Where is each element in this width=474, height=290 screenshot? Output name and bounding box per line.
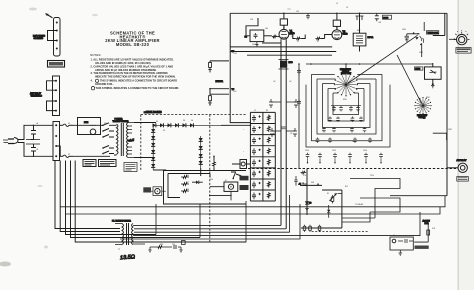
svg-text:-105: -105	[233, 91, 236, 93]
filament bus right	[285, 39, 287, 229]
relay contact arrow b	[330, 194, 336, 201]
svg-text:L2: L2	[336, 3, 338, 5]
wire grid V2	[321, 38, 329, 40]
svg-text:C302: C302	[419, 52, 423, 54]
svg-text:330: 330	[322, 130, 325, 132]
svg-text:J4: J4	[393, 235, 395, 237]
svg-text:ABOVE ARE IN pF UNLESS MARKED: ABOVE ARE IN pF UNLESS MARKED OTHERWISE.	[95, 68, 157, 72]
svg-text:.02: .02	[273, 81, 275, 83]
meter shunt resistors	[181, 176, 189, 179]
dashed cable run	[312, 231, 368, 233]
svg-text:TUNE C301: TUNE C301	[427, 32, 439, 34]
dashed chassis separator	[248, 168, 456, 170]
wire long bundle row 6	[134, 212, 420, 236]
svg-text:ZENER: ZENER	[216, 81, 224, 83]
svg-text:RFC: RFC	[289, 62, 294, 64]
svg-text:SW2 (S): SW2 (S)	[419, 117, 426, 119]
junction dots tank bottom	[307, 162, 382, 163]
svg-text:R47: R47	[186, 182, 189, 184]
resistor row bottom r3	[318, 225, 321, 232]
meter M2 multimeter	[153, 187, 162, 196]
svg-text:SOCKETS: SOCKETS	[34, 38, 44, 40]
grid resistor V1	[272, 35, 278, 37]
svg-text:572B: 572B	[343, 33, 349, 35]
svg-text:4.: 4.	[91, 79, 93, 83]
svg-text:NOTES:: NOTES:	[90, 53, 101, 57]
svg-text:D4: D4	[191, 120, 193, 122]
svg-text:R46: R46	[186, 175, 189, 177]
wafer SW2 starburst	[416, 99, 430, 113]
wire relay to right	[301, 190, 342, 228]
label alc hatched	[415, 246, 429, 249]
svg-text:.02: .02	[289, 81, 291, 83]
ALC wire	[414, 225, 428, 243]
svg-text:SW1: SW1	[343, 99, 347, 101]
wire RF left edge	[230, 13, 250, 122]
ground input	[255, 42, 258, 47]
wire long bundle row 2	[66, 207, 441, 214]
wire long bundle row 5	[134, 195, 290, 232]
arrow to J1	[46, 14, 53, 18]
transformer T1 secondary	[127, 123, 129, 158]
svg-text:.02: .02	[299, 184, 302, 186]
svg-text:13.5Ω: 13.5Ω	[120, 254, 135, 261]
nested loop wire 1	[306, 85, 390, 147]
cap filament right	[293, 128, 297, 137]
wire AC neutral	[18, 143, 53, 157]
svg-text:□ RECT. BOARD: □ RECT. BOARD	[144, 111, 162, 114]
svg-text:R33: R33	[160, 244, 163, 246]
wire plate to tubes	[284, 25, 337, 30]
diode string vertical right	[200, 136, 202, 168]
resistor relay vert	[331, 195, 334, 203]
svg-text:TRANSFORMER: TRANSFORMER	[113, 120, 130, 123]
svg-text:SW2: SW2	[426, 97, 430, 99]
svg-text:K1: K1	[327, 193, 329, 195]
wire input left	[246, 19, 258, 36]
rectifier board dashed box	[141, 115, 246, 244]
label meter dark	[143, 187, 151, 192]
diode metering	[196, 181, 199, 185]
plate choke RFC1	[353, 33, 366, 46]
wire lamp	[214, 156, 251, 170]
resistor R bias lower	[210, 94, 229, 96]
svg-text:TO RELAY: TO RELAY	[355, 203, 364, 206]
capacitor C1 line bypass	[31, 125, 37, 139]
load capacitor C306 box	[425, 67, 442, 79]
tune capacitor C301	[407, 34, 420, 37]
filament transformer T2	[122, 224, 124, 245]
svg-text:SW: SW	[104, 123, 107, 125]
transformer T1 core	[121, 123, 123, 156]
svg-text:THIS SYMBOL INDICATES A CONNEC: THIS SYMBOL INDICATES A CONNECTION TO CI…	[100, 79, 177, 83]
svg-text:R48: R48	[186, 189, 189, 191]
switch SW ac contacts	[103, 123, 114, 154]
meter M1	[224, 182, 238, 191]
ground load cap	[432, 83, 434, 85]
cathode resistor V1-V2 a	[295, 37, 301, 39]
svg-text:MODEL S: MODEL S	[342, 71, 349, 73]
svg-text:ANT RELAY: ANT RELAY	[30, 92, 42, 95]
diode relay D1	[327, 210, 330, 213]
wire long bundle row 7	[120, 204, 300, 239]
label grid (dark)	[240, 176, 249, 181]
wire bus down from AC area	[56, 146, 60, 156]
wire three bus lines tubes	[230, 43, 336, 55]
svg-text:+: +	[243, 151, 244, 153]
filament choke hatch	[280, 61, 287, 68]
svg-text:2. CAPACITOR VALUES LESS THAN: 2. CAPACITOR VALUES LESS THAN 1 ARE IN µ…	[91, 64, 174, 68]
svg-text:RCA PHONO: RCA PHONO	[33, 35, 45, 38]
svg-text:10: 10	[291, 36, 293, 38]
diagonal linkage to SW1	[348, 35, 418, 83]
wire fil caps	[271, 102, 296, 131]
svg-text:F1: F1	[68, 123, 70, 125]
svg-text:C314: C314	[363, 150, 367, 152]
svg-text:+105: +105	[233, 53, 237, 55]
capacitor C300	[375, 13, 379, 21]
cap filament left	[270, 128, 274, 137]
svg-text:D16: D16	[210, 179, 213, 181]
label ant box	[457, 177, 469, 182]
diagonal linkage to SW2	[397, 55, 422, 104]
capacitor bank grid	[250, 112, 275, 201]
ground alc	[399, 250, 403, 256]
parasitic suppressor V1	[280, 19, 287, 25]
cap pair small left	[269, 99, 273, 108]
electrolytic capacitors C1-C8 column	[252, 115, 261, 199]
wire long bundle row 8	[120, 201, 246, 242]
antenna connector J3	[458, 163, 467, 172]
svg-text:FAN: FAN	[84, 121, 89, 124]
diode string vertical left	[152, 126, 154, 170]
wire step route a	[342, 179, 400, 219]
svg-text:500: 500	[350, 130, 353, 132]
svg-text:D3: D3	[183, 120, 185, 122]
wire step route b	[342, 198, 400, 222]
junction dots top bus	[283, 13, 285, 15]
label line voltage box	[99, 160, 117, 167]
meter wires	[210, 186, 224, 188]
svg-text:THIS SYMBOL INDICATES A CONNEC: THIS SYMBOL INDICATES A CONNECTION TO TH…	[96, 86, 180, 90]
tank capacitor row A	[331, 105, 361, 111]
svg-text:L3: L3	[346, 7, 348, 9]
wire relay circuit frame	[300, 169, 322, 216]
svg-text:C19: C19	[296, 11, 299, 13]
tube V1 572B	[279, 29, 289, 39]
label plate (dark)	[240, 185, 249, 190]
wire top right corner	[433, 13, 447, 195]
svg-text:D1: D1	[156, 121, 158, 123]
svg-text:RL1: RL1	[345, 186, 348, 188]
circuit breaker CB1	[90, 124, 96, 126]
svg-text:R1: R1	[266, 110, 268, 112]
wire ant to relay	[447, 167, 458, 169]
svg-text:750: 750	[315, 141, 318, 143]
wire long bundle row 3	[134, 224, 281, 226]
svg-text:C20: C20	[250, 19, 253, 21]
svg-text:3. THE BANDSWITCH IS IN THE 8: 3. THE BANDSWITCH IS IN THE 80 METER POS…	[91, 71, 168, 75]
lamp box	[240, 160, 247, 169]
ground bottom a	[148, 247, 151, 252]
junction dots ps	[250, 125, 252, 127]
svg-text:.001: .001	[378, 22, 381, 24]
svg-text:TERMINALS: TERMINALS	[31, 95, 43, 98]
nested loop wire 2	[312, 74, 383, 140]
svg-text:47: 47	[297, 41, 299, 43]
svg-text:VALUES ARE IN OHMS (K=1000, M=: VALUES ARE IN OHMS (K=1000, M=1,000,000)…	[95, 61, 151, 65]
resistor R bias upper	[210, 61, 229, 63]
capacitor left drop a	[297, 68, 301, 74]
tank capacitor row C	[322, 127, 366, 132]
nested loop wire 5	[328, 89, 364, 122]
svg-text:T2: T2	[118, 249, 120, 251]
note 5 symbol	[91, 87, 94, 90]
connector strip J2	[53, 76, 60, 116]
label box under transformer	[124, 163, 137, 172]
wire RF top bus B+	[230, 12, 447, 14]
svg-text:.01: .01	[36, 149, 38, 151]
svg-text:F2: F2	[68, 154, 70, 156]
wire meter loop	[168, 174, 210, 198]
jumper bottom pair	[47, 101, 57, 111]
capacitor left drop b	[297, 99, 301, 105]
svg-text:.02: .02	[290, 133, 292, 135]
parasitic suppressor V2	[333, 20, 340, 26]
capacitor top bus a	[306, 13, 310, 19]
svg-text:1200: 1200	[352, 141, 356, 143]
filament bus left	[280, 39, 282, 225]
component small e	[182, 241, 186, 245]
svg-text:GROUND FOIL.: GROUND FOIL.	[95, 82, 114, 86]
wire long bundle row 4	[134, 228, 286, 230]
svg-text:FIL TRANSFORMER: FIL TRANSFORMER	[112, 220, 131, 223]
svg-text:220: 220	[350, 120, 353, 122]
nested loop wire 3	[317, 79, 376, 134]
label box (terminal id)	[48, 61, 65, 68]
svg-text:C307: C307	[448, 129, 452, 131]
cathode resistor V1-V2 b	[315, 37, 321, 39]
wire bottom ps to control	[155, 204, 157, 235]
svg-text:C310: C310	[305, 150, 309, 152]
wire input to V1	[264, 35, 272, 37]
wire meter M2	[151, 190, 166, 192]
wire AC hot	[18, 125, 53, 139]
meter circuit box	[164, 171, 247, 205]
label knob box	[456, 48, 471, 54]
tank capacitor row D	[316, 138, 372, 143]
wire starburst feed	[345, 64, 347, 73]
connector strip J1 (RCA phono sockets)	[54, 18, 61, 57]
wire tank plate line	[306, 63, 433, 65]
ALC resistor	[427, 230, 430, 235]
svg-text:1. ALL RESISTORS ARE 1/2 WATT: 1. ALL RESISTORS ARE 1/2 WATT UNLESS OTH…	[91, 58, 174, 62]
ALC jack box	[390, 237, 413, 250]
tune knob dial	[457, 34, 467, 44]
svg-text:C39: C39	[172, 244, 175, 246]
tank capacitor row B	[328, 117, 363, 122]
svg-text:MODEL SB-220: MODEL SB-220	[116, 42, 150, 47]
svg-text:C1: C1	[254, 110, 256, 112]
bias components cluster	[294, 176, 297, 186]
svg-text:D2: D2	[163, 130, 165, 132]
tube V2 572B	[332, 30, 342, 40]
svg-text:180: 180	[332, 109, 335, 111]
wire bundle vertical left	[55, 161, 120, 229]
nested loop wire 4	[323, 84, 371, 128]
svg-text:ANT RELAY: ANT RELAY	[457, 159, 468, 162]
fan motor B1 box	[78, 118, 101, 135]
capacitor line bypass bottom	[31, 144, 36, 156]
wire between caps	[26, 140, 40, 145]
diode row top	[156, 124, 230, 126]
wire plate feed left drop	[298, 64, 300, 169]
capacitor bottom pair	[172, 245, 181, 249]
terminal strip AC	[53, 122, 60, 161]
nested loop wire 6	[333, 93, 359, 115]
resistor row bottom r1	[303, 225, 306, 232]
svg-text:150: 150	[328, 120, 331, 122]
ground relay a	[305, 206, 309, 211]
wire AC to switches	[73, 125, 110, 156]
svg-text:47: 47	[317, 41, 319, 43]
equalizing resistors R column	[267, 115, 270, 199]
tank capacitor bottom row	[306, 153, 383, 158]
transformer T1 primary	[117, 124, 119, 154]
resistor near lamp	[213, 160, 216, 168]
fuse F1	[60, 124, 64, 126]
wire jumper on J1	[48, 31, 57, 41]
svg-text:RFC1: RFC1	[368, 37, 374, 39]
label power switch box	[83, 160, 96, 167]
zener relay	[305, 202, 310, 205]
meter switch wafer	[231, 172, 242, 179]
svg-text:INDICATE THE DIRECTION OF ROTA: INDICATE THE DIRECTION OF ROTATION FOR T…	[95, 75, 176, 79]
AC line plug P1	[8, 139, 14, 144]
capacitor relay a	[302, 183, 307, 186]
label tune box	[426, 31, 438, 34]
input network box	[250, 30, 264, 42]
fuse F2	[60, 155, 64, 157]
cap plate blocking	[358, 12, 360, 14]
resistor meter shunt bottom	[156, 246, 164, 249]
svg-text:+: +	[243, 129, 244, 131]
wire rect board to cap bank	[134, 123, 250, 177]
svg-text:1000: 1000	[252, 44, 256, 46]
svg-text:.02: .02	[273, 133, 275, 135]
wire cathode bus	[289, 34, 332, 38]
svg-text:100: 100	[265, 28, 268, 30]
wire mid	[210, 88, 229, 90]
wire long bundle row 1	[60, 196, 445, 207]
svg-text:.01: .01	[36, 123, 38, 125]
wire right edge RF box	[390, 195, 447, 197]
svg-text:100: 100	[349, 109, 352, 111]
jumper top pair	[47, 81, 57, 90]
bandswitch SW1 starburst	[336, 75, 356, 95]
svg-text:C312: C312	[332, 150, 336, 152]
svg-text:C301: C301	[402, 29, 406, 31]
ground bottom b	[179, 247, 182, 252]
resistor row bottom r2	[309, 225, 312, 232]
